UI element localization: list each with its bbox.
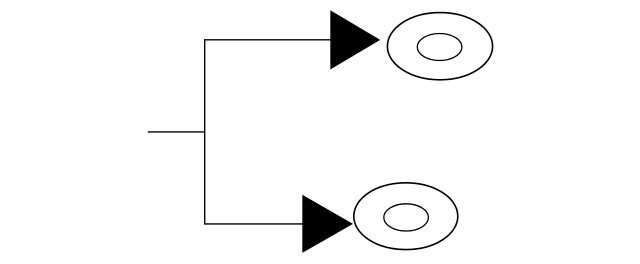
wire: input lead <box>148 131 206 133</box>
transducer LS2 outer ellipse (bottom) <box>354 183 458 250</box>
wire: top branch <box>204 39 331 41</box>
transducer LS1 inner ellipse (top) <box>417 34 462 61</box>
transducer LS1 outer ellipse (top) <box>387 13 492 80</box>
wire: bottom branch <box>204 223 303 225</box>
amplifier buffer A2 (bottom triangle) <box>302 195 353 253</box>
amplifier buffer A1 (top triangle) <box>330 10 380 69</box>
transducer LS2 inner ellipse (bottom) <box>384 204 429 231</box>
wire: vertical bus <box>204 40 206 224</box>
